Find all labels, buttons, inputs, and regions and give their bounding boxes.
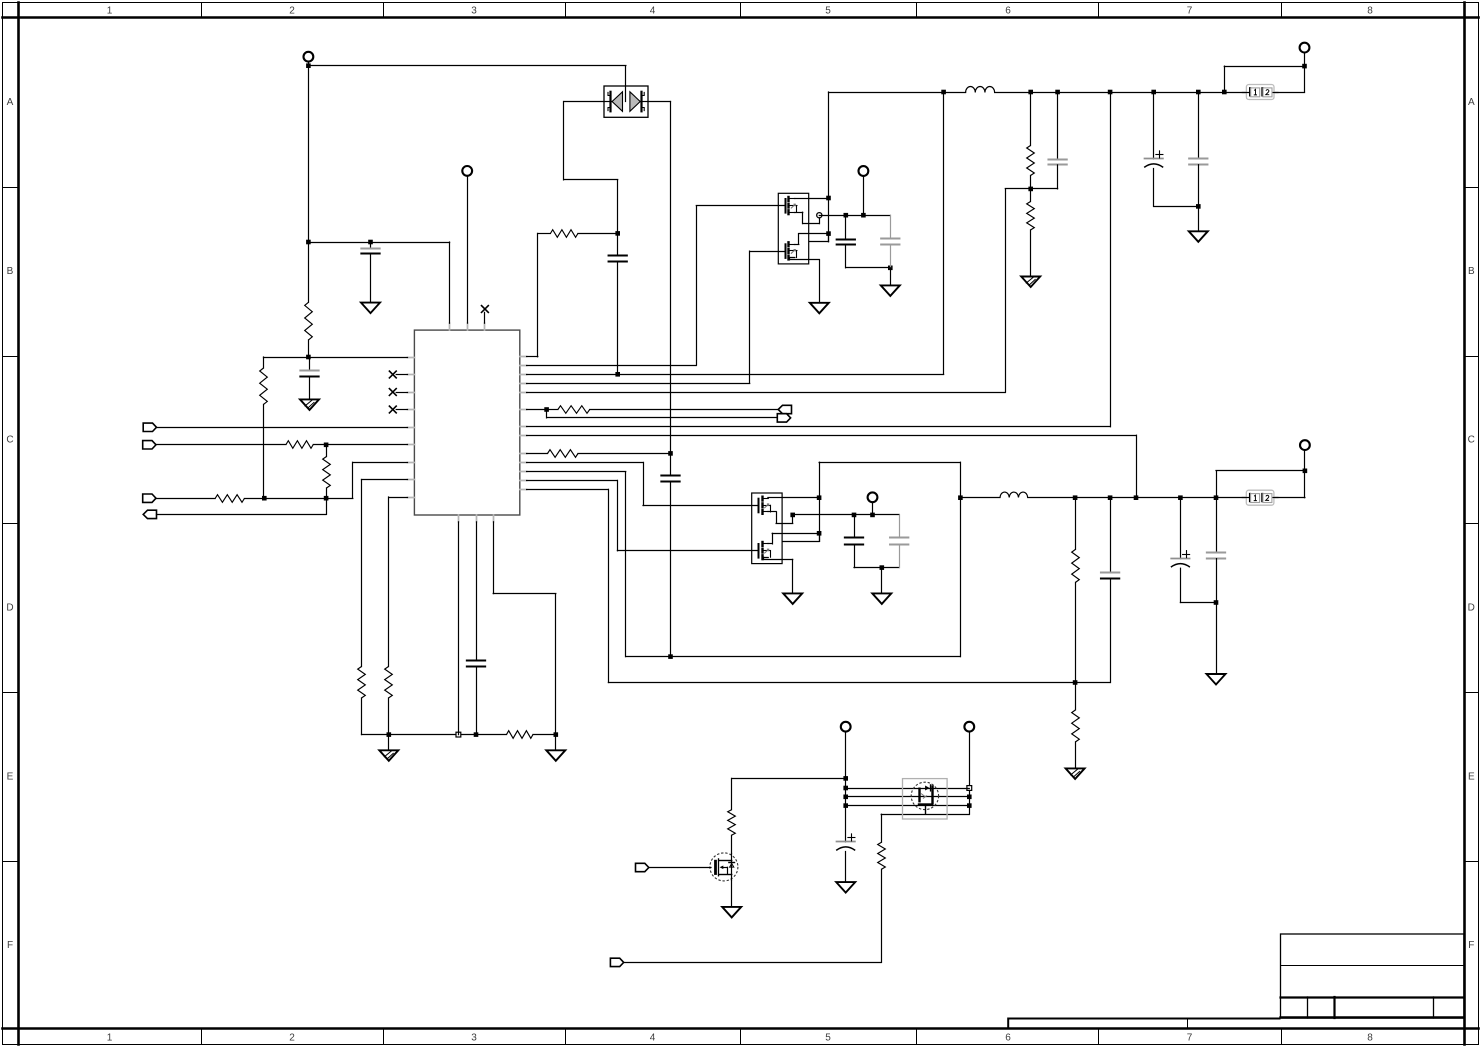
- ground: [1189, 206, 1208, 241]
- svg-text:F: F: [1468, 940, 1474, 951]
- capacitor C15: [1207, 498, 1225, 603]
- wire: [527, 435, 1137, 498]
- wire: [157, 498, 327, 514]
- wire: [819, 215, 890, 217]
- node: [1028, 187, 1033, 192]
- resistor R13: [1027, 189, 1035, 277]
- node: [1134, 495, 1139, 500]
- node: [941, 90, 946, 95]
- dual MOSFET Q1: [778, 193, 828, 264]
- capacitor C5: [609, 233, 627, 374]
- node: [817, 495, 822, 500]
- node: [888, 266, 893, 271]
- capacitor C2: [300, 357, 318, 399]
- svg-text:7: 7: [1187, 1033, 1193, 1044]
- ground: [361, 303, 380, 314]
- wire: [308, 66, 626, 87]
- resistor R6: [358, 480, 366, 735]
- rail wire: [829, 92, 966, 94]
- svg-text:8: 8: [1367, 1033, 1373, 1044]
- svg-text:7: 7: [1187, 6, 1193, 17]
- resistor R4: [323, 445, 331, 498]
- dual MOSFET Q2: [752, 493, 820, 564]
- capacitor C6: [837, 215, 855, 268]
- node: [306, 240, 311, 245]
- wire: [863, 176, 865, 215]
- svg-text:8: 8: [1367, 6, 1373, 17]
- svg-text:4: 4: [650, 1033, 656, 1044]
- wire: [819, 260, 821, 303]
- svg-text:B: B: [1468, 266, 1475, 277]
- wire: [792, 559, 794, 593]
- node: [870, 513, 875, 518]
- port flag B: [777, 414, 790, 422]
- title block: [1008, 934, 1464, 1028]
- node switch2: [790, 513, 795, 518]
- svg-text:5: 5: [825, 6, 831, 17]
- node: [843, 803, 848, 808]
- node: [1151, 90, 1156, 95]
- wire: [846, 788, 970, 790]
- resistor R14: [1072, 498, 1080, 683]
- wire: [732, 778, 846, 780]
- wire: [527, 206, 786, 366]
- resistor R5: [156, 495, 353, 503]
- node: [1196, 90, 1201, 95]
- node: [474, 732, 479, 737]
- node: [826, 196, 831, 201]
- wire: [467, 176, 469, 323]
- ground: [546, 735, 565, 761]
- capacitor C1: [361, 242, 379, 303]
- wire: [564, 102, 618, 234]
- wire: [731, 778, 733, 809]
- wire: [353, 462, 408, 498]
- wire: [157, 427, 408, 429]
- capacitor C10: [1189, 92, 1207, 206]
- node: [262, 496, 267, 501]
- node open: [967, 786, 972, 791]
- wire: [793, 514, 900, 516]
- wire: [1224, 66, 1304, 92]
- capacitor C16: [836, 834, 855, 882]
- ground: [783, 593, 802, 604]
- svg-text:1: 1: [107, 6, 113, 17]
- no-connect X: [482, 306, 489, 324]
- node: [554, 732, 559, 737]
- wire: [527, 251, 786, 383]
- wire: [527, 92, 944, 375]
- power flag P7: [841, 722, 851, 732]
- node: [1073, 680, 1078, 685]
- ground: [872, 568, 891, 604]
- wire: [1274, 450, 1305, 498]
- node: [852, 513, 857, 518]
- wire: [809, 92, 829, 242]
- node: [1196, 204, 1201, 209]
- ground: [1207, 603, 1226, 685]
- capacitor C4: [661, 453, 679, 656]
- resistor R12: [1027, 92, 1035, 189]
- wire: [845, 732, 847, 842]
- no-connect X: [389, 406, 407, 413]
- ground: [1021, 277, 1040, 288]
- ground: [836, 882, 855, 893]
- port OUT4: [143, 510, 156, 518]
- resistor R8: [362, 731, 556, 739]
- node: [861, 213, 866, 218]
- svg-text:4: 4: [650, 6, 656, 17]
- wire: [389, 497, 408, 499]
- node: [844, 213, 849, 218]
- wire: [527, 480, 759, 550]
- node: [1214, 495, 1219, 500]
- wire: [1216, 471, 1305, 498]
- power module M1: [903, 779, 948, 819]
- wire: [527, 189, 1058, 393]
- capacitor C13: [1101, 498, 1119, 683]
- capacitor C12: [890, 515, 908, 568]
- resistor R9: [538, 230, 618, 238]
- svg-text:1: 1: [107, 1033, 113, 1044]
- port IN2: [143, 441, 156, 449]
- svg-text:B: B: [7, 266, 14, 277]
- resistor R11: [527, 450, 671, 458]
- wire: [527, 233, 538, 356]
- inductor L1: [966, 87, 995, 93]
- wire: [527, 472, 961, 657]
- capacitor C3: [467, 522, 485, 735]
- ground: [379, 735, 398, 761]
- svg-text:6: 6: [1005, 1033, 1011, 1044]
- node: [1108, 495, 1113, 500]
- resistor R2: [260, 357, 268, 498]
- node open: [456, 732, 461, 737]
- port EN: [610, 958, 623, 966]
- no-connect X: [389, 389, 407, 396]
- resistor R10: [527, 406, 779, 414]
- svg-text:C: C: [6, 435, 13, 446]
- wire: [527, 92, 1111, 427]
- node: [1303, 469, 1308, 474]
- wire: [547, 410, 778, 418]
- connector J1: [1242, 85, 1278, 100]
- wire: [881, 814, 969, 816]
- node: [1108, 90, 1113, 95]
- wire: [264, 357, 408, 359]
- port flag A: [778, 405, 791, 413]
- node: [387, 732, 392, 737]
- node: [1028, 90, 1033, 95]
- node: [826, 231, 831, 236]
- svg-text:6: 6: [1005, 6, 1011, 17]
- resistor R3: [156, 441, 408, 449]
- ground: [1066, 768, 1085, 779]
- wire: [624, 962, 882, 964]
- svg-text:2: 2: [289, 1033, 295, 1044]
- node: [967, 803, 972, 808]
- port IN1: [143, 423, 156, 431]
- power flag P1: [304, 52, 314, 62]
- resistor R15: [1072, 683, 1080, 769]
- node VIN junction: [306, 63, 311, 68]
- wire: [308, 66, 310, 242]
- svg-text:D: D: [1468, 603, 1475, 614]
- power flag P8: [964, 722, 974, 732]
- capacitor C9: [1144, 92, 1198, 207]
- node: [843, 786, 848, 791]
- node: [1073, 495, 1078, 500]
- node: [615, 231, 620, 236]
- wire: [1275, 53, 1305, 93]
- rail wire: [960, 497, 1000, 499]
- wire: [819, 462, 960, 656]
- node: [880, 565, 885, 570]
- node: [544, 407, 549, 412]
- capacitor C8: [1048, 92, 1066, 189]
- node: [843, 776, 848, 781]
- node: [958, 495, 963, 500]
- wire: [649, 867, 711, 869]
- capacitor C7: [881, 215, 899, 268]
- node: [324, 443, 329, 448]
- TVS diode D1: [604, 86, 648, 117]
- power flag P3: [859, 166, 869, 176]
- wire: [648, 102, 671, 454]
- no-connect X: [389, 371, 407, 378]
- wire: [846, 796, 970, 798]
- ground: [881, 268, 900, 296]
- wire: [527, 489, 1111, 682]
- wire: [731, 880, 733, 907]
- svg-text:A: A: [1468, 97, 1475, 108]
- power flag P6: [1300, 440, 1310, 450]
- node: [615, 372, 620, 377]
- wire: [854, 567, 899, 569]
- power flag P4: [1300, 43, 1310, 53]
- inductor L2: [1000, 492, 1028, 497]
- node: [967, 795, 972, 800]
- node: [817, 531, 822, 536]
- svg-text:F: F: [7, 940, 13, 951]
- node: [306, 355, 311, 360]
- resistor R1: [305, 242, 313, 357]
- connector J2: [1242, 490, 1278, 505]
- node: [1178, 495, 1183, 500]
- node: [1222, 90, 1227, 95]
- rail wire: [995, 92, 1247, 94]
- resistor R16: [728, 810, 736, 854]
- wire: [493, 522, 556, 735]
- node: [668, 654, 673, 659]
- ground: [722, 907, 741, 918]
- svg-text:3: 3: [471, 6, 477, 17]
- wire: [846, 267, 891, 269]
- resistor R17: [878, 814, 886, 962]
- port IN3: [143, 494, 156, 502]
- svg-text:C: C: [1468, 435, 1475, 446]
- wire: [362, 479, 408, 481]
- node: [843, 795, 848, 800]
- svg-text:5: 5: [825, 1033, 831, 1044]
- node: [668, 451, 673, 456]
- ground: [300, 399, 319, 410]
- node: [1214, 600, 1219, 605]
- resistor R7: [385, 497, 393, 735]
- wire: [308, 242, 449, 323]
- svg-text:E: E: [1468, 772, 1475, 783]
- wire: [782, 462, 819, 541]
- node: [1055, 90, 1060, 95]
- node switch: [817, 213, 822, 218]
- svg-text:D: D: [6, 603, 13, 614]
- rail wire: [1028, 497, 1247, 499]
- wire: [969, 732, 971, 815]
- power flag P2: [462, 166, 472, 176]
- power flag P5: [868, 492, 878, 502]
- port GATE: [636, 863, 649, 871]
- capacitor C11: [845, 515, 863, 568]
- svg-text:A: A: [7, 97, 14, 108]
- ground: [810, 303, 829, 314]
- wire: [527, 462, 759, 505]
- wire: [846, 805, 970, 807]
- svg-text:2: 2: [289, 6, 295, 17]
- node: [1302, 64, 1307, 69]
- MOSFET Q3: [710, 853, 738, 881]
- node: [368, 240, 373, 245]
- wire: [458, 522, 460, 735]
- node: [324, 496, 329, 501]
- wire: [308, 62, 310, 66]
- wire: [872, 502, 874, 515]
- svg-text:E: E: [7, 772, 14, 783]
- svg-text:3: 3: [471, 1033, 477, 1044]
- IC U1: [408, 323, 527, 522]
- capacitor C14: [1171, 498, 1216, 603]
